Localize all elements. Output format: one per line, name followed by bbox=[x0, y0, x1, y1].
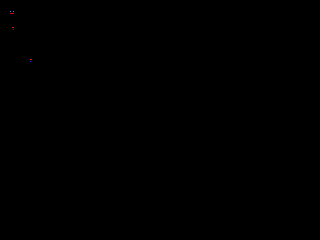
sprite 2: indigo dot bbox=[13, 29, 14, 30]
sprite 3: indigo dot bbox=[30, 61, 31, 62]
sprite 2: red dash bbox=[12, 27, 14, 28]
robot face sprite: red mouth bar bbox=[10, 13, 14, 14]
robot face sprite: right eye bbox=[13, 11, 14, 12]
robot face sprite: left eye bbox=[10, 11, 11, 12]
sprite 3: red dash bbox=[30, 59, 32, 60]
